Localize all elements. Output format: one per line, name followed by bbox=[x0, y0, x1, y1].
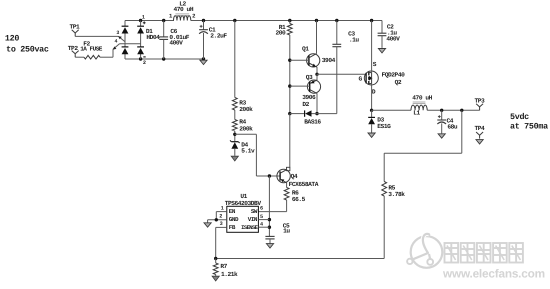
capacitor C5 bbox=[265, 223, 290, 244]
node output junction bbox=[460, 109, 463, 112]
svg-text:470 uH: 470 uH bbox=[412, 95, 432, 102]
diode D1d bbox=[137, 47, 144, 54]
diode D1b bbox=[137, 26, 144, 33]
transistor Q4 FCX658ATA bbox=[277, 169, 319, 188]
svg-text:1: 1 bbox=[221, 205, 224, 211]
svg-text:4: 4 bbox=[260, 221, 263, 227]
svg-text:HD04: HD04 bbox=[146, 34, 160, 41]
svg-text:L1: L1 bbox=[413, 110, 420, 117]
label D1 HD04 bbox=[146, 28, 160, 41]
node bridge bottom junctions bbox=[139, 57, 205, 60]
svg-text:FCX658ATA: FCX658ATA bbox=[289, 181, 319, 188]
label 5vdc at 750ma bbox=[510, 112, 548, 131]
wire R6 to SW bbox=[258, 200, 286, 212]
svg-text:200k: 200k bbox=[239, 126, 253, 133]
node top rail junctions bbox=[139, 19, 373, 22]
capacitor C6 bbox=[159, 21, 189, 60]
wire EN to GND bbox=[215, 212, 218, 222]
resistor R5 bbox=[382, 182, 405, 198]
svg-text:www.elecfans.com: www.elecfans.com bbox=[442, 266, 545, 280]
bridge left column wire bbox=[124, 21, 126, 60]
ic U1 TPS64203DBV bbox=[225, 193, 262, 232]
svg-text:Q3: Q3 bbox=[306, 74, 313, 81]
svg-text:2: 2 bbox=[143, 60, 146, 66]
diode D2 BAS16 bbox=[302, 101, 321, 126]
wire bottom rail bbox=[125, 58, 204, 60]
pin - of D1 bbox=[143, 56, 145, 58]
svg-text:5: 5 bbox=[260, 214, 263, 220]
svg-text:2: 2 bbox=[219, 214, 222, 220]
ground at R7 bbox=[212, 276, 219, 281]
bridge right column wire bbox=[140, 21, 142, 60]
fuse F2 bbox=[80, 41, 103, 59]
capacitor C2 bbox=[378, 21, 401, 48]
wire R5 to FB bbox=[216, 196, 385, 259]
capacitor C3 bbox=[332, 21, 359, 114]
pin 1 of L2 bbox=[169, 12, 173, 19]
node Q3 base junction bbox=[288, 84, 291, 87]
wire Q1 emitter to junction bbox=[316, 67, 318, 74]
label 120 to 250vac bbox=[5, 33, 49, 54]
pin ISENSE of U1 bbox=[241, 221, 269, 230]
test point TP2 bbox=[68, 45, 79, 57]
svg-text:TP1: TP1 bbox=[70, 23, 81, 30]
test point TP4 bbox=[475, 125, 486, 139]
svg-text:Q4: Q4 bbox=[291, 173, 298, 180]
svg-text:1A FUSE: 1A FUSE bbox=[80, 46, 103, 53]
wire FB column bbox=[215, 227, 217, 258]
svg-text:6: 6 bbox=[260, 206, 263, 212]
pin 2 of L2 bbox=[192, 12, 196, 19]
ground at TP4 bbox=[476, 140, 483, 144]
wire fuse to bridge bbox=[100, 44, 141, 57]
resistor R4 bbox=[232, 119, 253, 133]
pin 2 of D1 bbox=[143, 60, 146, 66]
pin VIN of U1 bbox=[248, 214, 270, 223]
svg-text:3904: 3904 bbox=[322, 57, 336, 64]
svg-text:ISENSE: ISENSE bbox=[241, 224, 259, 231]
node Q3 collector junction bbox=[315, 112, 318, 115]
svg-text:ES1G: ES1G bbox=[377, 123, 391, 130]
diode D1c bbox=[122, 47, 129, 54]
collector square of Q4 bbox=[287, 167, 290, 170]
svg-text:at 750ma: at 750ma bbox=[510, 121, 548, 131]
svg-text:2.2uF: 2.2uF bbox=[210, 33, 227, 40]
pin + of D1 bbox=[143, 21, 146, 24]
node ISENSE junction bbox=[268, 226, 271, 229]
svg-text:FB: FB bbox=[229, 224, 236, 231]
ground at C4 bbox=[438, 134, 445, 138]
wire output row bbox=[372, 109, 480, 111]
pin 4 of D1 bbox=[115, 39, 118, 45]
node FB junction bbox=[214, 257, 217, 260]
svg-text:GND: GND bbox=[229, 216, 239, 223]
node R4-D4 junction bbox=[233, 133, 236, 136]
wire D2 cathode wire bbox=[290, 113, 305, 115]
wire Q4 emitter to R6 bbox=[286, 183, 288, 188]
node VIN junction bbox=[268, 218, 271, 221]
mosfet Q2 FQD2P40 bbox=[359, 21, 406, 111]
svg-text:TP3: TP3 bbox=[475, 97, 486, 104]
svg-text:3.78k: 3.78k bbox=[388, 191, 405, 198]
transistor Q3 bbox=[290, 74, 321, 101]
wire base column bbox=[289, 60, 291, 113]
svg-text:EN: EN bbox=[229, 208, 236, 215]
wire R3 column bbox=[234, 21, 236, 142]
ground at C1 bbox=[200, 60, 207, 64]
pin SW of U1 bbox=[251, 206, 263, 215]
svg-text:U1: U1 bbox=[240, 193, 247, 200]
wire D2 anode to C3 bbox=[312, 113, 337, 115]
wire output to R5 bbox=[384, 110, 462, 181]
svg-text:470 uH: 470 uH bbox=[174, 6, 194, 13]
svg-text:4: 4 bbox=[115, 39, 118, 45]
svg-text:D2: D2 bbox=[302, 101, 309, 108]
wire emitters to Q2 gate bbox=[317, 73, 366, 75]
svg-text:R7: R7 bbox=[220, 263, 227, 270]
pin FB of U1 bbox=[216, 221, 236, 231]
svg-text:SW: SW bbox=[251, 208, 258, 215]
svg-text:400V: 400V bbox=[386, 36, 400, 43]
svg-text:5.1v: 5.1v bbox=[241, 148, 255, 155]
node drain junction bbox=[370, 109, 373, 112]
zener D4 bbox=[230, 140, 255, 155]
resistor R6 bbox=[284, 188, 305, 203]
ground at D4 bbox=[231, 156, 238, 161]
wire Q3 collector down bbox=[316, 93, 318, 113]
wire D2 anode column to Q4 bbox=[289, 114, 291, 168]
svg-text:to 250vac: to 250vac bbox=[6, 44, 49, 54]
svg-text:.1u: .1u bbox=[349, 37, 360, 44]
wire Q3 emitter to junction bbox=[316, 74, 318, 80]
resistor R1 bbox=[276, 21, 293, 61]
svg-text:TP2: TP2 bbox=[68, 45, 79, 52]
wire TP2 to fuse bbox=[75, 56, 84, 58]
test point TP3 bbox=[475, 97, 486, 110]
inductor L2 bbox=[174, 1, 194, 21]
svg-text:3: 3 bbox=[220, 221, 223, 227]
svg-text:400V: 400V bbox=[169, 40, 183, 47]
capacitor C4 bbox=[437, 110, 458, 133]
svg-text:BAS16: BAS16 bbox=[304, 118, 321, 125]
svg-text:TPS64203DBV: TPS64203DBV bbox=[225, 200, 262, 207]
svg-text:1u: 1u bbox=[283, 227, 290, 234]
svg-text:120: 120 bbox=[5, 33, 19, 43]
svg-text:VIN: VIN bbox=[248, 216, 258, 223]
diode D1a bbox=[122, 26, 129, 33]
wire TP1 to bridge bbox=[75, 36, 125, 42]
svg-text:66.5: 66.5 bbox=[292, 196, 306, 203]
pin 3 of D1 bbox=[116, 30, 119, 36]
svg-text:1.21k: 1.21k bbox=[221, 271, 238, 278]
diode D3 ES1G bbox=[368, 110, 391, 132]
svg-text:200k: 200k bbox=[239, 106, 253, 113]
svg-text:68u: 68u bbox=[447, 124, 458, 131]
svg-text:FQD2P40: FQD2P40 bbox=[382, 72, 406, 79]
watermark elecfans logo and text bbox=[407, 234, 545, 280]
wire top rail bbox=[125, 20, 382, 22]
svg-text:200: 200 bbox=[276, 30, 287, 37]
ground at C5 bbox=[266, 244, 273, 248]
capacitor C1 bbox=[199, 21, 227, 60]
node Q1 base junction bbox=[288, 59, 291, 62]
svg-text:Q2: Q2 bbox=[395, 79, 402, 86]
pin EN of U1 bbox=[216, 205, 236, 215]
svg-text:3: 3 bbox=[116, 30, 119, 36]
ground at U1 GND bbox=[204, 220, 211, 227]
pin 1 of D1 bbox=[142, 15, 145, 21]
ground at D3 bbox=[368, 133, 375, 137]
resistor R3 bbox=[232, 98, 253, 114]
node C4 junction bbox=[440, 109, 443, 112]
node Q4 base junction bbox=[268, 174, 271, 177]
inductor L1 bbox=[411, 95, 433, 117]
test point TP1 bbox=[70, 23, 81, 36]
svg-text:1: 1 bbox=[142, 15, 145, 21]
transistor Q1 bbox=[290, 21, 336, 68]
wire D4 node to Q4 base bbox=[235, 134, 280, 176]
svg-text:TP4: TP4 bbox=[475, 125, 486, 132]
resistor R7 bbox=[213, 259, 238, 278]
pin GND of U1 bbox=[208, 214, 239, 224]
ground at C2 bbox=[378, 49, 385, 53]
wire VIN riser bbox=[268, 176, 270, 236]
svg-text:Q1: Q1 bbox=[302, 46, 309, 53]
node emitter junction bbox=[315, 73, 318, 76]
node D2 junction bbox=[288, 112, 291, 115]
